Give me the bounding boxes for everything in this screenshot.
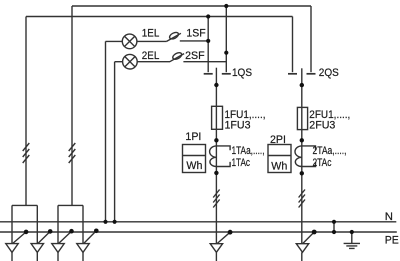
fuse 1FU — [212, 106, 223, 129]
node: 1EL return on N — [103, 220, 107, 224]
feeder switch blade 3 — [59, 231, 72, 243]
conductor count marks box2 drop — [69, 143, 76, 163]
node: blade 4 pivot — [94, 229, 99, 234]
node: dot below 2TA — [300, 171, 304, 175]
current transformer 1TA hooks — [210, 146, 217, 167]
node: dot below 2QS — [300, 83, 304, 87]
disconnector 2QS pole B — [310, 6, 312, 72]
svg-text:PE: PE — [385, 234, 399, 246]
disconnector 2QS pole A — [292, 17, 294, 73]
feeder arrow 6 — [296, 244, 308, 253]
svg-text:1FU3: 1FU3 — [225, 120, 251, 132]
node: dot on 1QS pole B — [224, 51, 228, 55]
group box 2 — [58, 204, 83, 206]
meter box 2PI — [268, 145, 291, 173]
svg-text:1TAc: 1TAc — [232, 157, 251, 169]
wire: 2EL return drop to N — [114, 62, 116, 222]
svg-text:1EL: 1EL — [142, 28, 160, 40]
wire: 2SF output to 1QS pole B — [183, 61, 226, 63]
node: blade 1 pivot — [24, 230, 29, 235]
meter box 1PI — [183, 145, 206, 173]
disconnector 1QS pole B — [225, 6, 227, 72]
switch 1SF blade — [167, 33, 181, 41]
svg-text:1TAa,....,: 1TAa,...., — [232, 145, 265, 157]
conductor count marks feeder 1 — [213, 190, 219, 208]
svg-text:2TAc: 2TAc — [313, 157, 332, 169]
node: dot above 1TA — [214, 138, 218, 142]
node: dot below 1TA — [214, 171, 218, 175]
svg-text:2PI: 2PI — [270, 134, 286, 146]
svg-text:1SF: 1SF — [186, 28, 205, 40]
lamp 1EL — [122, 34, 137, 49]
ground stem — [351, 232, 353, 243]
node: blade 5 pivot — [228, 230, 233, 235]
feeder arrow 5 — [210, 244, 222, 253]
wire: feeder bus 1 drop to box 2 — [71, 6, 73, 205]
disconnector 1QS blade output — [215, 68, 217, 107]
conductor count marks feeder 2 — [299, 190, 305, 208]
feeder switch blade 5 — [217, 232, 230, 243]
current transformer 2TA hooks — [295, 146, 302, 167]
svg-text:Wh: Wh — [271, 161, 287, 173]
node: 1SF/1QS-A junction — [206, 39, 210, 43]
feeder arrow 3 — [52, 244, 64, 253]
wire: 2EL left lead — [115, 61, 123, 63]
feeder switch blade 6 — [303, 232, 314, 244]
svg-text:2SF: 2SF — [185, 50, 205, 62]
disconnector 1QS pole A — [207, 17, 209, 73]
svg-text:1PI: 1PI — [185, 131, 201, 143]
wire: 1QS feeder down — [215, 129, 217, 243]
feeder arrow 2 — [31, 244, 43, 253]
svg-text:2QS: 2QS — [319, 67, 339, 79]
feeder switch blade 2 — [38, 231, 50, 243]
wire: 1SF output to 1QS pole A — [180, 40, 208, 42]
feeder arrow 1 — [6, 244, 18, 253]
feeder switch blade 1 — [13, 232, 26, 244]
node: dot above 2TA — [300, 138, 304, 142]
node: bus2/1QS-A junction — [206, 14, 210, 18]
node: jumper on N — [332, 220, 336, 224]
node: 2EL return on N — [113, 220, 117, 224]
lamp 2EL — [123, 54, 138, 69]
node: jumper on PE — [332, 230, 336, 234]
wire: top feeder bus 2 — [26, 16, 293, 18]
switch 1SF circle — [168, 31, 179, 40]
group box 1 — [12, 204, 37, 206]
svg-text:1QS: 1QS — [232, 67, 252, 79]
svg-text:2TAa,....,: 2TAa,...., — [313, 145, 347, 157]
2TA tap c — [302, 162, 316, 167]
node: blade 3 pivot — [69, 229, 74, 234]
1TA tap a — [216, 146, 230, 150]
node: blade 6 pivot — [312, 230, 317, 235]
node: bus1/1QS-B junction — [224, 4, 228, 8]
wire: 1EL to 1SF — [137, 40, 167, 42]
ground — [344, 243, 360, 248]
conductor count marks box1 drop — [23, 143, 30, 163]
wire: 2QS feeder down — [301, 130, 303, 244]
wire: 1EL left lead — [106, 40, 123, 42]
disconnector 2QS blade output — [301, 68, 303, 107]
svg-text:Wh: Wh — [186, 160, 202, 172]
switch 2SF circle — [172, 51, 183, 60]
feeder switch blade 4 — [84, 231, 97, 244]
svg-text:2FU3: 2FU3 — [309, 120, 335, 132]
wire: top feeder bus 1 — [72, 5, 311, 7]
switch 2SF blade — [170, 54, 184, 62]
svg-text:N: N — [385, 211, 393, 223]
node: blade 2 pivot — [48, 229, 53, 234]
bus PE — [0, 231, 397, 233]
node: dot below 1QS — [214, 83, 218, 87]
fuse 2FU — [297, 107, 307, 129]
wire: feeder bus 2 drop to box 1 — [25, 17, 27, 206]
feeder arrow 4 — [77, 244, 89, 253]
svg-text:2EL: 2EL — [142, 50, 160, 62]
wire: 2EL to 2SF — [137, 61, 170, 63]
node: ground tap on PE — [350, 230, 354, 234]
2TA tap a — [302, 146, 316, 150]
wire: 1EL return drop to N — [105, 41, 107, 221]
N-PE jumper — [333, 222, 335, 232]
bus N — [0, 221, 396, 223]
1TA tap c — [216, 162, 230, 167]
